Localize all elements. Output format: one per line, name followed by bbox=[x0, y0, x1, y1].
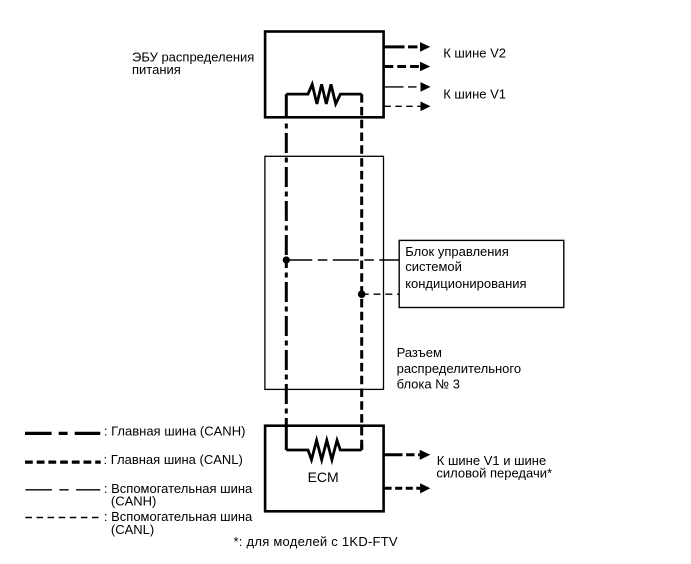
svg-text:питания: питания bbox=[132, 62, 181, 77]
label: ECM bbox=[308, 469, 339, 485]
wire stub to bus V2 CANH (arrow 1) bbox=[385, 42, 431, 52]
legend label: auxiliary bus CANH bbox=[104, 481, 253, 508]
svg-text:: Главная шина (CANL): : Главная шина (CANL) bbox=[104, 452, 243, 467]
svg-text:Блок управления: Блок управления bbox=[405, 244, 509, 259]
legend label: main bus CANH bbox=[104, 423, 246, 438]
wire branch CANL to A/C control unit bbox=[362, 293, 400, 295]
legend line: main bus CANL bbox=[25, 461, 101, 464]
label: K shine V1 and powertrain bus bbox=[436, 453, 552, 481]
svg-text:К шине V1: К шине V1 bbox=[443, 86, 506, 101]
wire main bus CANH vertical (left bus) bbox=[285, 94, 288, 450]
legend label: main bus CANL bbox=[104, 452, 243, 467]
label: junction block no.3 bbox=[397, 345, 521, 392]
svg-text:К шине V2: К шине V2 bbox=[443, 46, 506, 61]
svg-text:(CANL): (CANL) bbox=[111, 522, 154, 537]
wire branch CANH to A/C control unit bbox=[286, 259, 399, 261]
legend label: auxiliary bus CANL bbox=[104, 509, 253, 537]
svg-text:блока № 3: блока № 3 bbox=[397, 377, 460, 392]
legend line: main bus CANH bbox=[25, 432, 100, 435]
wire stub ECM to bus V1/powertrain CANH (arrow 5) bbox=[385, 450, 431, 460]
node junction on CANL bus bbox=[358, 290, 366, 298]
wire stub ECM to bus V1/powertrain CANL (arrow 6) bbox=[385, 483, 431, 493]
ECM box bbox=[265, 426, 384, 512]
svg-text:распределительного: распределительного bbox=[397, 361, 521, 376]
resistor R1 (terminating resistor in power distribution ECU) bbox=[286, 84, 361, 104]
wire stub to bus V1 CANH (arrow 3) bbox=[385, 82, 431, 92]
svg-text:силовой передачи*: силовой передачи* bbox=[436, 466, 552, 481]
footnote: for 1KD-FTV models bbox=[234, 534, 398, 549]
node junction on CANH bus bbox=[283, 256, 290, 263]
power distribution ECU box bbox=[265, 32, 384, 118]
wire main bus CANL vertical (right bus) bbox=[360, 94, 363, 450]
svg-text:: Главная шина (CANH): : Главная шина (CANH) bbox=[104, 423, 246, 438]
wire stub to bus V2 CANL (arrow 2) bbox=[385, 62, 431, 72]
svg-text:кондиционирования: кондиционирования bbox=[405, 276, 526, 291]
wire stub to bus V1 CANL (arrow 4) bbox=[385, 102, 431, 112]
legend line: auxiliary bus CANH bbox=[25, 489, 100, 491]
svg-text:(CANH): (CANH) bbox=[111, 493, 156, 508]
label: power distribution ECU bbox=[132, 49, 254, 77]
A/C control unit box bbox=[399, 240, 564, 307]
resistor R2 (terminating resistor in ECM) bbox=[286, 440, 361, 460]
legend line: auxiliary bus CANL bbox=[25, 517, 100, 519]
label: A/C control unit bbox=[405, 244, 526, 291]
svg-text:Разъем: Разъем bbox=[397, 345, 442, 360]
svg-text:ECM: ECM bbox=[308, 469, 339, 485]
junction block no.3 connector box bbox=[265, 156, 384, 389]
svg-text:системой: системой bbox=[405, 259, 462, 274]
label: K shine V2 bbox=[443, 46, 506, 61]
svg-text:*: для моделей с 1KD-FTV: *: для моделей с 1KD-FTV bbox=[234, 534, 398, 549]
label: K shine V1 bbox=[443, 86, 506, 101]
